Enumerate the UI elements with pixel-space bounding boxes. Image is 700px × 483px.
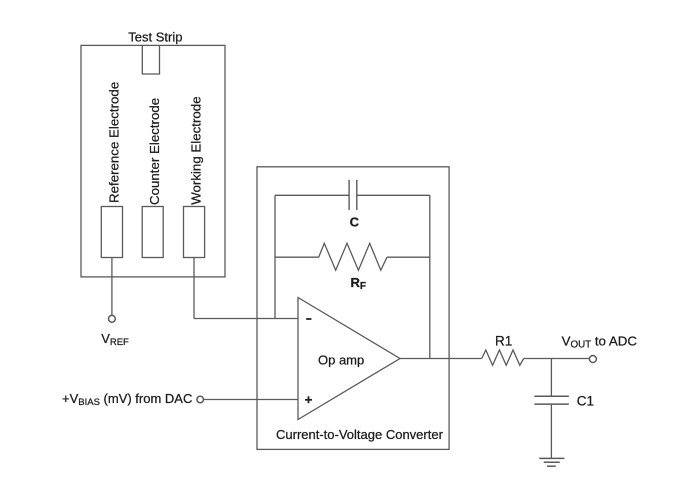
svg-text:C: C: [350, 214, 360, 229]
wire working electrode to op-amp inverting input: [194, 318, 298, 320]
terminal VREF: [109, 315, 116, 322]
svg-text:VREF: VREF: [101, 331, 129, 348]
wire working electrode vertical: [193, 258, 195, 319]
wire capacitor C1 to ground: [550, 404, 552, 458]
svg-text:+VBIAS (mV) from DAC: +VBIAS (mV) from DAC: [62, 391, 192, 408]
wire R1 to VOUT terminal: [524, 358, 590, 360]
resistor R1 zigzag: [482, 350, 524, 365]
svg-text:Reference Electrode: Reference Electrode: [106, 82, 121, 203]
test strip notch: [142, 45, 159, 74]
working electrode pad: [184, 207, 205, 258]
svg-text:VOUT to ADC: VOUT to ADC: [562, 334, 638, 351]
svg-text:R1: R1: [495, 334, 512, 349]
terminal VBIAS: [197, 396, 204, 403]
wire VBIAS input to op-amp non-inverting input: [204, 399, 298, 401]
wire from resistor RF right: [387, 256, 430, 258]
counter electrode pad: [142, 207, 163, 258]
svg-text:Test Strip: Test Strip: [128, 29, 182, 44]
svg-text:Working Electrode: Working Electrode: [189, 96, 204, 204]
ground: [539, 458, 564, 466]
wire feedback left rail: [274, 195, 276, 318]
test strip box: [81, 45, 225, 277]
svg-text:Op amp: Op amp: [318, 353, 364, 368]
wire node to capacitor C1: [550, 359, 552, 397]
op-amp inverting input mark: [306, 318, 311, 320]
wire op-amp output to R1: [400, 358, 482, 360]
resistor RF zigzag: [319, 243, 387, 270]
wire reference electrode to VREF terminal: [111, 258, 113, 316]
terminal VOUT: [589, 356, 596, 363]
svg-text:RF: RF: [351, 275, 367, 292]
capacitor C plates: [349, 180, 357, 210]
svg-text:C1: C1: [577, 394, 594, 409]
wire from capacitor C right: [357, 194, 430, 196]
op-amp U1 triangle: [298, 298, 400, 420]
wire to resistor RF left: [275, 256, 319, 258]
wire feedback right rail: [429, 195, 431, 358]
svg-text:Current-to-Voltage Converter: Current-to-Voltage Converter: [276, 427, 444, 442]
reference electrode pad: [101, 207, 122, 258]
wire to capacitor C left: [275, 194, 349, 196]
capacitor C1 plates: [534, 396, 568, 404]
current-to-voltage converter box: [257, 167, 449, 450]
op-amp non-inverting input mark: [305, 396, 312, 403]
svg-text:Counter Electrode: Counter Electrode: [147, 98, 162, 205]
